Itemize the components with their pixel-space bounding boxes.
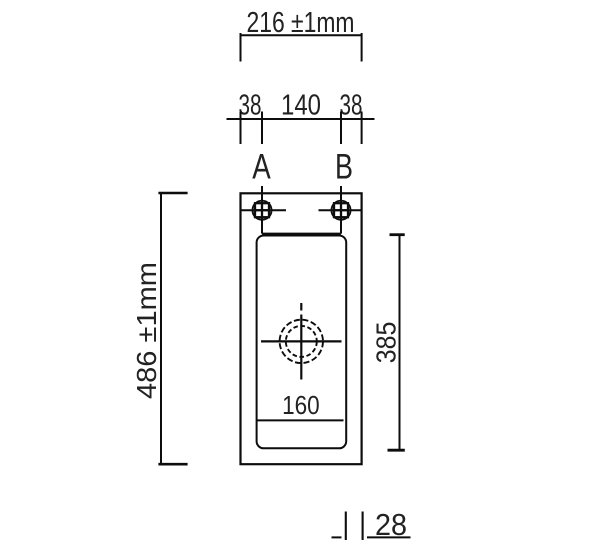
hole B square — [334, 203, 348, 217]
drain inner circle — [286, 326, 317, 357]
outer body rectangle — [241, 193, 362, 464]
hole A horizontal centerline — [241, 209, 287, 211]
svg-text:385: 385 — [371, 322, 402, 364]
bottom dimension line under 28 — [367, 536, 411, 538]
right dimension bottom tick — [388, 449, 405, 452]
drain outer dashed circle — [280, 320, 323, 363]
bottom dimension line left dash — [332, 536, 342, 538]
dimension line 160 — [257, 419, 343, 421]
svg-text:A: A — [252, 147, 271, 186]
bottom tick at inner edge — [345, 512, 347, 541]
hole B cross horizontal — [333, 209, 349, 211]
tick at hole B — [340, 112, 342, 145]
back edge line between holes — [262, 233, 341, 235]
inner basin rounded rectangle — [257, 236, 347, 449]
hole A square — [255, 203, 269, 217]
right dimension line 385 — [399, 236, 401, 449]
centerline hole B — [340, 186, 342, 234]
hole B horizontal centerline — [319, 209, 362, 211]
hole B circle — [332, 201, 351, 220]
extension tick left of 216 — [240, 33, 242, 62]
hole A cross horizontal — [254, 209, 270, 211]
right dimension top tick — [390, 233, 405, 236]
left dimension top tick — [158, 192, 187, 195]
svg-text:486 ±1mm: 486 ±1mm — [131, 262, 162, 399]
extension tick right of 216 — [361, 33, 363, 62]
dimension line 216 — [241, 34, 362, 36]
hole B cross vertical — [340, 202, 342, 219]
tick at outer right — [361, 112, 363, 145]
svg-text:B: B — [335, 147, 353, 186]
drain vertical centerline — [300, 315, 302, 380]
drain vertical centerline dash — [300, 303, 302, 311]
dimension line 38/140/38 — [227, 118, 375, 120]
hole A cross vertical — [261, 202, 263, 219]
left dimension bottom tick — [158, 463, 187, 466]
svg-text:160: 160 — [282, 390, 320, 420]
svg-text:38: 38 — [340, 90, 363, 122]
svg-text:140: 140 — [281, 90, 321, 122]
tick at hole A — [261, 112, 263, 145]
centerline hole A — [261, 186, 263, 234]
bottom tick at outer edge — [362, 512, 364, 541]
hole A circle — [253, 201, 272, 220]
tick at outer left — [240, 112, 242, 145]
svg-text:38: 38 — [239, 90, 262, 122]
drain horizontal centerline — [261, 340, 342, 342]
left dimension line 486 — [160, 193, 162, 464]
svg-text:28: 28 — [375, 507, 407, 542]
